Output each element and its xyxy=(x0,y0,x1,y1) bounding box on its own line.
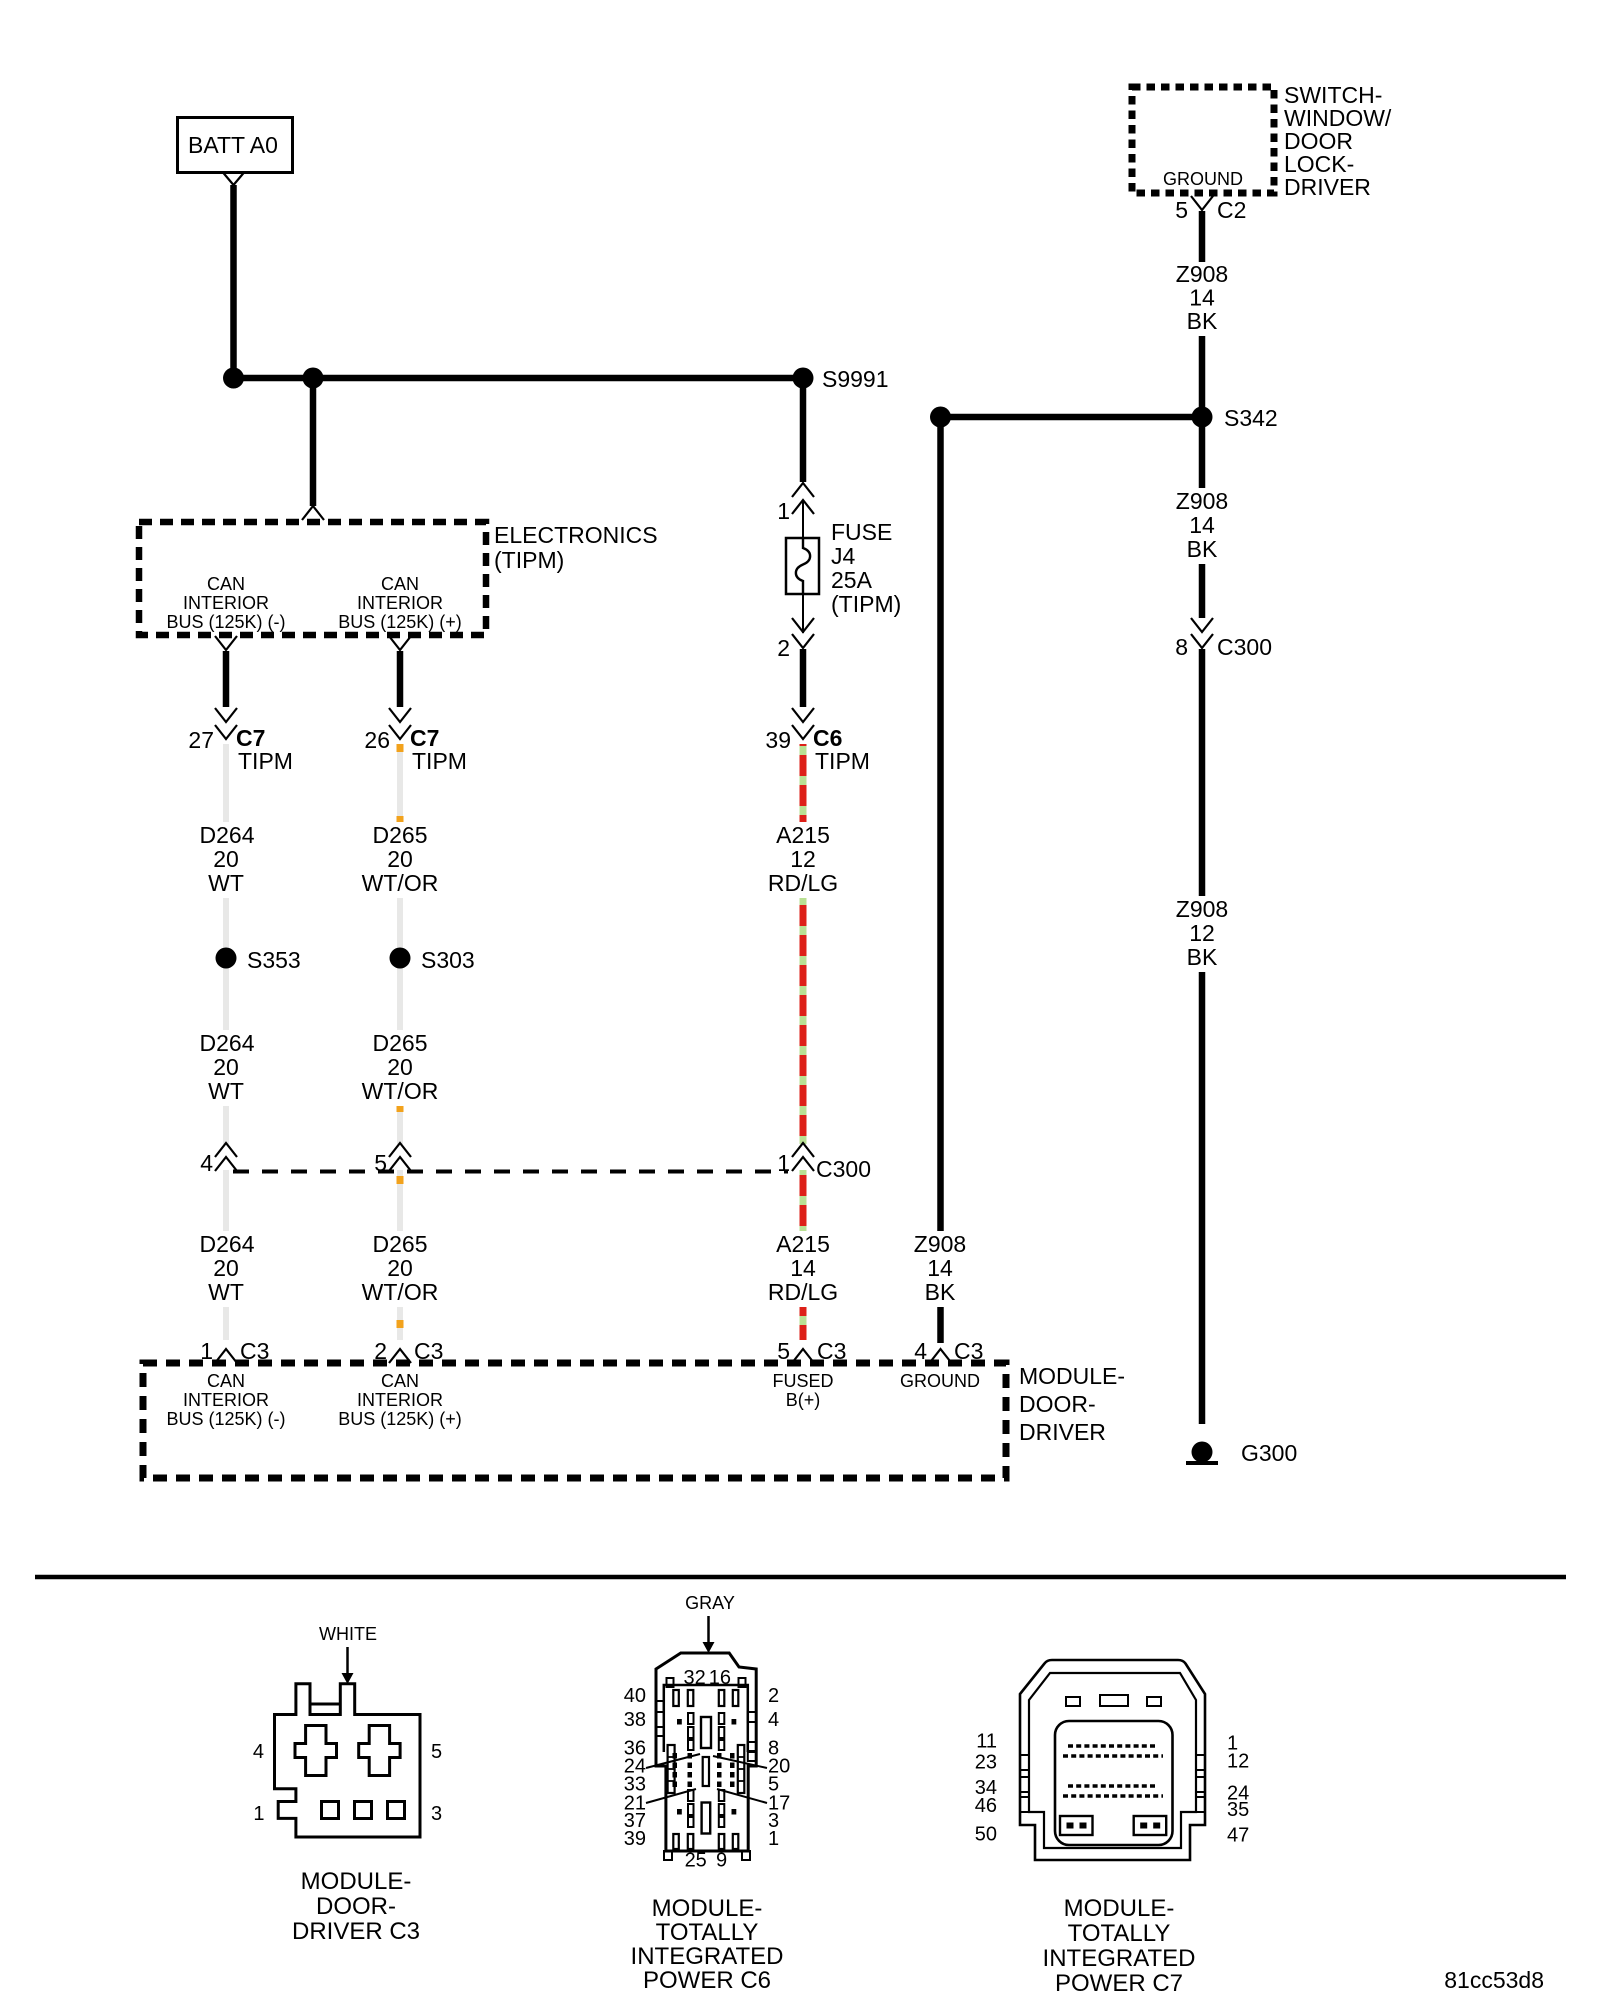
arrow GRAY pointer xyxy=(703,1616,715,1653)
svg-text:C3: C3 xyxy=(414,1338,443,1364)
svg-text:BK: BK xyxy=(1187,308,1218,334)
svg-text:20: 20 xyxy=(387,1054,413,1080)
title MODULE-TOTALLY INTEGRATED POWER C6 xyxy=(631,1895,784,1994)
svg-text:MODULE-: MODULE- xyxy=(1019,1363,1125,1389)
pin function CAN INTERIOR BUS (125K) (+) module xyxy=(338,1371,462,1429)
wire D265 white/orange upper base xyxy=(397,744,403,1340)
pin slot top row 3 xyxy=(719,1690,725,1706)
svg-text:FUSE: FUSE xyxy=(831,519,892,545)
pin function CAN INTERIOR BUS (125K) (-) module xyxy=(166,1371,285,1429)
svg-text:5: 5 xyxy=(777,1338,790,1364)
wire label A215 14 RD/LG xyxy=(764,1231,842,1307)
svg-text:1: 1 xyxy=(768,1828,779,1850)
svg-text:MODULE-: MODULE- xyxy=(652,1895,763,1922)
pin band right edge xyxy=(738,1745,745,1793)
svg-text:MODULE-: MODULE- xyxy=(1064,1895,1175,1922)
svg-text:TIPM: TIPM xyxy=(412,748,467,774)
svg-text:S9991: S9991 xyxy=(822,366,889,392)
ground G300 symbol xyxy=(1186,1442,1218,1464)
svg-text:DOOR-: DOOR- xyxy=(316,1893,396,1920)
pin tiny squares mid column 1 xyxy=(673,1753,678,1787)
splice S353 junction dot xyxy=(216,948,237,969)
connector chevron pin 4 C3 xyxy=(930,1349,952,1363)
pin big slot upper center xyxy=(701,1717,711,1748)
svg-text:25: 25 xyxy=(685,1850,707,1872)
svg-text:BK: BK xyxy=(1187,536,1218,562)
svg-text:38: 38 xyxy=(624,1709,646,1731)
connector C6 foot left xyxy=(664,1851,672,1860)
svg-text:26: 26 xyxy=(364,727,390,753)
wire D265 orange tracer dashes xyxy=(397,744,404,1340)
wire label Z908 14 BK middle xyxy=(1168,488,1236,564)
connector chevrons into fuse pin 1 xyxy=(792,483,814,514)
junction dot left xyxy=(223,368,244,389)
svg-text:B(+): B(+) xyxy=(786,1390,821,1410)
wire D264 white upper xyxy=(223,744,229,1340)
svg-text:2: 2 xyxy=(777,635,790,661)
connector C3 ledge between tabs xyxy=(310,1703,340,1706)
connector C6 face outline xyxy=(656,1653,756,1851)
pin square small right xyxy=(732,1719,737,1725)
svg-text:A215: A215 xyxy=(776,1231,830,1257)
svg-text:A215: A215 xyxy=(776,822,830,848)
connector C7 face outer shell xyxy=(1020,1660,1205,1860)
connector chevron pin 2 C3 xyxy=(389,1349,411,1363)
svg-text:INTERIOR: INTERIOR xyxy=(357,1390,443,1410)
svg-text:WT: WT xyxy=(208,870,244,896)
svg-text:WT: WT xyxy=(208,1078,244,1104)
pin slot bottom row 4 xyxy=(733,1834,739,1849)
svg-text:12: 12 xyxy=(1189,920,1215,946)
pin tiny squares mid column 2 xyxy=(688,1753,693,1787)
svg-text:BUS (125K) (+): BUS (125K) (+) xyxy=(338,612,462,632)
svg-text:D264: D264 xyxy=(200,822,255,848)
pin square small left xyxy=(677,1719,682,1725)
connector C6 top hook right xyxy=(739,1678,746,1687)
pin cavity square a xyxy=(322,1802,339,1819)
svg-text:25A: 25A xyxy=(831,567,873,593)
module box MODULE-DOOR-DRIVER dashed xyxy=(143,1363,1006,1478)
wire Z908 12 BK to ground xyxy=(1199,649,1206,1424)
svg-text:D265: D265 xyxy=(373,1231,428,1257)
svg-text:C3: C3 xyxy=(817,1338,846,1364)
wire stub below ELECTRONICS middle xyxy=(397,651,404,707)
svg-text:CAN: CAN xyxy=(207,574,245,594)
pin slot bottom row 1 xyxy=(673,1834,679,1849)
connector C7 top inner tab center xyxy=(1100,1695,1128,1706)
pin dash row 4 xyxy=(1063,1794,1163,1798)
pin big slot lower center xyxy=(702,1803,711,1834)
connector C3 face outline xyxy=(275,1684,421,1837)
leader line pin 17 xyxy=(717,1789,767,1803)
in-line connector C300 dashed line xyxy=(233,1170,788,1174)
svg-text:WT/OR: WT/OR xyxy=(362,870,439,896)
svg-text:20: 20 xyxy=(213,1255,239,1281)
junction dot S342 left xyxy=(930,407,951,428)
wire bus S342 horizontal xyxy=(941,414,1203,421)
connector C7 inner cavity rounded square xyxy=(1055,1721,1173,1845)
label SWITCH-WINDOW/DOOR LOCK-DRIVER xyxy=(1284,82,1392,200)
svg-text:C300: C300 xyxy=(1217,634,1272,660)
pin dash row 1 xyxy=(1068,1744,1158,1748)
wire from bus down to ELECTRONICS (TIPM) xyxy=(310,378,317,506)
connector C6 right edge rung b xyxy=(748,1742,756,1751)
svg-text:BATT A0: BATT A0 xyxy=(188,132,278,158)
svg-text:1: 1 xyxy=(777,498,790,524)
junction dot middle xyxy=(303,368,324,389)
svg-text:27: 27 xyxy=(188,727,214,753)
wire label D265 20 WT/OR lower xyxy=(356,1231,444,1307)
svg-text:11: 11 xyxy=(976,1731,997,1753)
connector C6 foot right xyxy=(742,1851,750,1860)
connector C7 inner shell xyxy=(1029,1673,1196,1848)
splice S9991 junction dot xyxy=(793,368,814,389)
svg-text:C300: C300 xyxy=(816,1156,871,1182)
connector chevrons fuse pin 2 xyxy=(792,618,814,648)
wire label Z908 14 BK left branch xyxy=(906,1231,974,1307)
leader line pin 21 xyxy=(646,1789,696,1803)
pin slot bottom row 2 xyxy=(688,1834,694,1849)
wire Z908 from S342 to module ground pin xyxy=(937,417,944,1343)
wire label D264 20 WT middle xyxy=(192,1030,260,1106)
svg-text:1: 1 xyxy=(200,1338,213,1364)
leader line pin 24 xyxy=(646,1754,700,1768)
svg-text:WT: WT xyxy=(208,1279,244,1305)
pin slot column left lower xyxy=(688,1790,694,1827)
svg-text:14: 14 xyxy=(1189,285,1215,311)
wire label D265 20 WT/OR upper xyxy=(356,822,444,898)
connector C7 right side rungs xyxy=(1196,1755,1205,1812)
svg-text:32: 32 xyxy=(683,1667,705,1689)
fuse J4 25A body xyxy=(786,538,819,594)
svg-text:20: 20 xyxy=(387,1255,413,1281)
connector chevron pin 1 C3 xyxy=(215,1349,237,1363)
connector C6 TIPM label xyxy=(813,725,870,774)
svg-text:1: 1 xyxy=(253,1803,264,1825)
svg-text:INTEGRATED: INTEGRATED xyxy=(631,1943,784,1970)
svg-text:J4: J4 xyxy=(831,543,856,569)
connector C7 top inner rect right xyxy=(1147,1697,1161,1706)
svg-text:Z908: Z908 xyxy=(914,1231,966,1257)
svg-text:8: 8 xyxy=(1175,634,1188,660)
svg-text:S303: S303 xyxy=(421,947,475,973)
arrow WHITE pointer xyxy=(342,1647,354,1684)
svg-text:C3: C3 xyxy=(240,1338,269,1364)
wire label D265 20 WT/OR middle xyxy=(356,1030,444,1106)
svg-text:12: 12 xyxy=(790,846,816,872)
title MODULE-DOOR-DRIVER C3 xyxy=(292,1868,420,1945)
connector chevron below BATT A0 xyxy=(223,173,244,186)
wire thin into fuse xyxy=(802,500,804,546)
pin tiny squares mid column 4 xyxy=(730,1753,735,1787)
svg-text:ELECTRONICS: ELECTRONICS xyxy=(494,522,658,548)
svg-text:D264: D264 xyxy=(200,1231,255,1257)
svg-text:INTERIOR: INTERIOR xyxy=(183,1390,269,1410)
svg-text:D264: D264 xyxy=(200,1030,255,1056)
pin square small left lower xyxy=(677,1809,682,1815)
connector chevrons 8 C300 xyxy=(1191,618,1213,648)
svg-text:3: 3 xyxy=(431,1803,442,1825)
svg-text:TOTALLY: TOTALLY xyxy=(1068,1920,1171,1947)
svg-text:TIPM: TIPM xyxy=(238,748,293,774)
svg-text:14: 14 xyxy=(1189,512,1215,538)
fuse label FUSE J4 25A (TIPM) xyxy=(831,519,901,617)
pin slot column right lower xyxy=(719,1790,725,1827)
pin function CAN INTERIOR BUS (125K) (-) xyxy=(166,574,285,632)
svg-text:RD/LG: RD/LG xyxy=(768,1279,838,1305)
pin function CAN INTERIOR BUS (125K) (+) xyxy=(338,574,462,632)
pin slot top row 4 xyxy=(733,1690,739,1706)
svg-text:BUS (125K) (+): BUS (125K) (+) xyxy=(338,1409,462,1429)
svg-text:GROUND: GROUND xyxy=(900,1371,980,1391)
svg-text:G300: G300 xyxy=(1241,1440,1297,1466)
svg-text:DRIVER: DRIVER xyxy=(1019,1419,1106,1445)
wire from fuse down to C6 xyxy=(800,649,807,707)
svg-text:D265: D265 xyxy=(373,822,428,848)
svg-text:20: 20 xyxy=(213,1054,239,1080)
svg-text:5: 5 xyxy=(374,1150,387,1176)
pin box lower right xyxy=(1134,1816,1167,1835)
svg-text:1: 1 xyxy=(777,1150,790,1176)
svg-text:46: 46 xyxy=(975,1795,997,1817)
svg-text:4: 4 xyxy=(768,1709,779,1731)
wire Z908 from C2 to S342 xyxy=(1199,211,1206,417)
label MODULE-DOOR-DRIVER xyxy=(1019,1363,1125,1445)
svg-text:POWER C6: POWER C6 xyxy=(643,1967,771,1994)
svg-text:12: 12 xyxy=(1227,1751,1249,1773)
svg-text:INTERIOR: INTERIOR xyxy=(357,593,443,613)
connector chevrons 26 C7 xyxy=(389,708,411,739)
svg-text:40: 40 xyxy=(624,1685,646,1707)
svg-text:DOOR-: DOOR- xyxy=(1019,1391,1096,1417)
pin mid slot center xyxy=(703,1757,709,1786)
svg-text:D265: D265 xyxy=(373,1030,428,1056)
svg-text:14: 14 xyxy=(790,1255,816,1281)
wire label D264 20 WT upper xyxy=(192,822,260,898)
svg-text:BUS (125K) (-): BUS (125K) (-) xyxy=(166,1409,285,1429)
svg-text:S353: S353 xyxy=(247,947,301,973)
module box ELECTRONICS (TIPM) dashed xyxy=(139,522,486,635)
pin 5 cavity cross xyxy=(359,1726,400,1776)
svg-text:81cc53d8: 81cc53d8 xyxy=(1444,1967,1544,1993)
wire stub below ELECTRONICS left xyxy=(223,651,230,707)
wire bus S9991 horizontal xyxy=(234,375,804,382)
connector C6 right edge rung a xyxy=(748,1712,756,1722)
svg-text:BK: BK xyxy=(925,1279,956,1305)
pin slot top row 2 xyxy=(688,1690,694,1706)
svg-text:20: 20 xyxy=(387,846,413,872)
connector C6 left edge tab b xyxy=(656,1727,664,1736)
svg-text:TOTALLY: TOTALLY xyxy=(656,1919,759,1946)
svg-text:INTEGRATED: INTEGRATED xyxy=(1043,1945,1196,1972)
svg-text:Z908: Z908 xyxy=(1176,261,1228,287)
svg-text:C3: C3 xyxy=(954,1338,983,1364)
svg-text:20: 20 xyxy=(213,846,239,872)
pin slot bottom row 3 xyxy=(719,1834,725,1849)
pin cavity square c xyxy=(388,1802,405,1819)
wire label D264 20 WT lower xyxy=(192,1231,260,1307)
pin tiny squares mid column 3 xyxy=(717,1753,722,1787)
connector chevron pin 5 C3 xyxy=(792,1349,814,1363)
svg-text:DRIVER: DRIVER xyxy=(1284,174,1371,200)
svg-text:INTERIOR: INTERIOR xyxy=(183,593,269,613)
svg-text:16: 16 xyxy=(709,1667,731,1689)
chevron out of ELECTRONICS box left xyxy=(215,636,237,650)
svg-text:MODULE-: MODULE- xyxy=(301,1868,412,1895)
connector C6 top hook left xyxy=(667,1678,674,1687)
pin cavity square b xyxy=(355,1802,372,1819)
connector chevrons 27 C7 xyxy=(215,708,237,739)
svg-text:BUS (125K) (-): BUS (125K) (-) xyxy=(166,612,285,632)
svg-text:39: 39 xyxy=(765,727,791,753)
svg-text:2: 2 xyxy=(374,1338,387,1364)
svg-text:50: 50 xyxy=(975,1824,997,1846)
connector chevrons pin 5 C300 xyxy=(389,1143,411,1171)
svg-text:POWER C7: POWER C7 xyxy=(1055,1970,1183,1997)
wire label Z908 14 BK upper xyxy=(1168,261,1236,336)
pin dash row 3 xyxy=(1068,1784,1158,1788)
wire from S9991 down to fuse xyxy=(800,378,807,482)
connector C7 left side rungs xyxy=(1020,1755,1029,1812)
connector C7 TIPM label (+) xyxy=(410,725,467,774)
battery B+ box BATT A0 xyxy=(178,118,293,173)
pin band left edge xyxy=(668,1745,675,1793)
connector C6 left edge tab a xyxy=(656,1701,664,1712)
svg-text:CAN: CAN xyxy=(381,574,419,594)
wire label A215 12 RD/LG xyxy=(764,822,842,898)
svg-text:BK: BK xyxy=(1187,944,1218,970)
svg-text:2: 2 xyxy=(768,1685,779,1707)
svg-text:C2: C2 xyxy=(1217,197,1246,223)
svg-text:GROUND: GROUND xyxy=(1163,169,1243,189)
label ELECTRONICS (TIPM) xyxy=(494,522,658,573)
pin function FUSED B(+) xyxy=(772,1371,833,1410)
svg-text:DRIVER C3: DRIVER C3 xyxy=(292,1918,420,1945)
leader line pin 20 xyxy=(713,1756,767,1768)
pin 4 cavity cross xyxy=(295,1726,337,1776)
svg-text:RD/LG: RD/LG xyxy=(768,870,838,896)
svg-text:S342: S342 xyxy=(1224,405,1278,431)
connector chevrons pin 4 C300 xyxy=(215,1143,237,1171)
pin slot top row 1 xyxy=(673,1690,679,1706)
svg-text:9: 9 xyxy=(716,1850,727,1872)
splice S342 junction dot xyxy=(1192,407,1213,428)
svg-text:4: 4 xyxy=(914,1338,927,1364)
wire A215 red/lightgreen upper xyxy=(800,744,807,1340)
svg-text:14: 14 xyxy=(927,1255,953,1281)
svg-text:5: 5 xyxy=(1175,197,1188,223)
svg-text:47: 47 xyxy=(1227,1825,1249,1847)
connector chevrons 39 C6 xyxy=(792,708,814,739)
separator line xyxy=(35,1575,1566,1580)
pin slot column right upper xyxy=(719,1713,725,1750)
svg-text:TIPM: TIPM xyxy=(815,748,870,774)
svg-text:23: 23 xyxy=(975,1752,997,1774)
svg-text:4: 4 xyxy=(253,1741,264,1763)
pin square small right lower xyxy=(732,1809,737,1815)
svg-text:Z908: Z908 xyxy=(1176,896,1228,922)
connector chevrons pin 1 C300 xyxy=(792,1143,814,1171)
svg-text:GRAY: GRAY xyxy=(685,1593,735,1613)
svg-text:5: 5 xyxy=(431,1741,442,1763)
svg-text:(TIPM): (TIPM) xyxy=(831,591,901,617)
svg-text:CAN: CAN xyxy=(207,1371,245,1391)
svg-text:FUSED: FUSED xyxy=(772,1371,833,1391)
connector C7 TIPM label xyxy=(236,725,293,774)
svg-text:4: 4 xyxy=(200,1150,213,1176)
wire Z908 from S342 down to C300 xyxy=(1199,417,1206,618)
svg-text:(TIPM): (TIPM) xyxy=(494,547,564,573)
svg-text:WT/OR: WT/OR xyxy=(362,1078,439,1104)
pin slot column left upper xyxy=(688,1713,694,1750)
wire label Z908 12 BK xyxy=(1168,896,1236,972)
svg-text:WHITE: WHITE xyxy=(319,1624,377,1644)
chevron out of ELECTRONICS box middle xyxy=(389,636,411,650)
module box SWITCH-WINDOW/DOOR LOCK-DRIVER dashed xyxy=(1132,87,1274,193)
pin dash row 2 xyxy=(1063,1754,1163,1758)
chevron into ELECTRONICS box xyxy=(302,506,324,520)
splice S303 junction dot xyxy=(390,948,411,969)
connector C6 right edge rung c xyxy=(748,1752,756,1761)
svg-text:35: 35 xyxy=(1227,1799,1249,1821)
wire from BATT A0 to bus xyxy=(230,185,237,378)
connector chevron pin 5 C2 xyxy=(1191,196,1213,210)
pin box lower left xyxy=(1060,1816,1093,1835)
svg-text:Z908: Z908 xyxy=(1176,488,1228,514)
connector C7 top inner rect left xyxy=(1066,1697,1080,1706)
svg-text:CAN: CAN xyxy=(381,1371,419,1391)
connector C6 inner frame top xyxy=(664,1685,748,1752)
svg-text:39: 39 xyxy=(624,1828,646,1850)
svg-text:WT/OR: WT/OR xyxy=(362,1279,439,1305)
wire thin out of fuse xyxy=(802,594,804,633)
title MODULE-TOTALLY INTEGRATED POWER C7 xyxy=(1043,1895,1196,1997)
